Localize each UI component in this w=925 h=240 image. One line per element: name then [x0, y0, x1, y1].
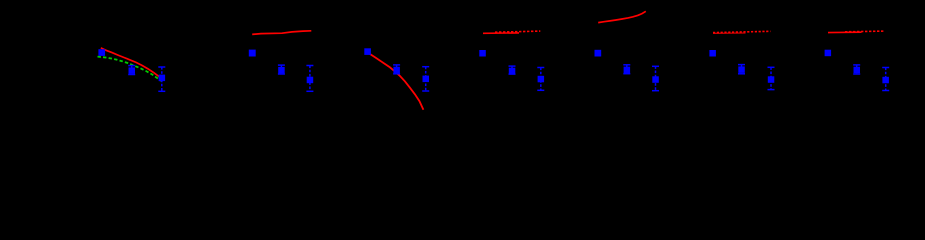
panel 5 point 3 data marker — [652, 76, 659, 83]
panel 1 green dashed fit curve — [98, 57, 162, 81]
panel 5 red fit curve — [598, 11, 646, 22]
panel 6 point 3 data marker — [768, 76, 775, 83]
panel 1 red fit curve — [101, 48, 163, 79]
panel 4 point 1 data marker — [479, 50, 486, 57]
panel 4 red dashed extrapolation line — [495, 31, 540, 32]
panel 1 point 3 data marker — [159, 75, 166, 82]
panel 5 point 1 data marker — [595, 50, 602, 57]
panel 5 point 2 error bar — [623, 65, 630, 74]
panel 6 point 3 error bar — [768, 67, 775, 89]
panel 1 point 2 error bar — [128, 66, 135, 75]
panel 2 point 1 data marker — [249, 50, 256, 57]
panel 3 point 1 data marker — [364, 48, 371, 55]
panel 1 point 1 data marker — [98, 49, 105, 56]
panel 5 point 3 error bar — [652, 66, 659, 90]
panel 3 point 2 data marker — [393, 67, 400, 74]
panel 6 red dashed fit line — [713, 31, 770, 32]
panel 7 point 2 data marker — [854, 67, 861, 74]
panel 3 point 3 error bar — [422, 67, 429, 91]
panel 4 point 2 error bar — [509, 66, 516, 74]
panel 7 red solid fit line — [828, 31, 862, 33]
panel 2 point 3 data marker — [307, 77, 314, 84]
panel 6 point 2 error bar — [738, 65, 745, 74]
panel 6 red faint solid fit segment — [713, 32, 746, 34]
panel 7 point 1 data marker — [825, 50, 832, 57]
panel 1 point 3 error bar — [158, 67, 165, 91]
panel 7 red dashed extrapolation line — [845, 30, 885, 33]
panel 7 point 3 error bar — [882, 68, 889, 91]
panel 6 point 1 data marker — [709, 50, 716, 57]
panel 4 point 3 error bar — [537, 68, 544, 91]
panel 2 point 3 error bar — [306, 66, 313, 92]
panel 5 point 2 data marker — [624, 67, 631, 74]
panel 2 point 2 error bar — [278, 65, 285, 74]
panel 7 point 2 error bar — [853, 65, 860, 74]
panel 2 red fit line — [252, 31, 311, 35]
panel 3 red fit curve — [369, 53, 423, 109]
panel 3 point 2 error bar — [393, 65, 400, 74]
panel 4 point 3 data marker — [538, 76, 545, 83]
panel 4 red solid fit line — [483, 32, 519, 34]
panel 1 point 2 data marker — [129, 67, 136, 74]
panel 7 point 3 data marker — [882, 77, 889, 84]
panel 6 point 2 data marker — [738, 66, 745, 73]
panel 4 point 2 data marker — [509, 68, 516, 75]
panel 2 point 2 data marker — [278, 67, 285, 74]
panel 3 point 3 data marker — [423, 76, 430, 83]
